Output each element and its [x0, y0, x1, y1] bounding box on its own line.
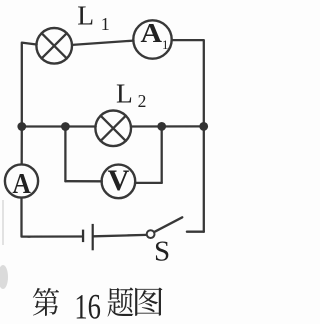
wire: battery positive to switch pivot — [94, 235, 147, 236]
ammeter A1 circle — [133, 20, 171, 58]
junction node: voltmeter branch left — [61, 122, 70, 131]
wire: bottom to battery negative — [28, 235, 82, 237]
scan streak left edge — [2, 200, 4, 245]
svg-text:L: L — [116, 77, 133, 108]
svg-text:1: 1 — [162, 37, 169, 52]
svg-text:A: A — [141, 17, 163, 48]
wire: switch fixed contact to right rail bottom corner — [187, 231, 204, 233]
voltmeter V circle — [102, 165, 136, 199]
wire: A1 to top-right corner + right rail upper — [172, 40, 204, 126]
junction node: right rail / middle row — [199, 122, 208, 131]
svg-text:V: V — [108, 165, 130, 197]
battery negative plate (short) — [82, 230, 84, 243]
svg-text:1: 1 — [101, 14, 110, 34]
wire: right rail lower (junction down to switch corner) — [203, 126, 205, 231]
svg-text:L: L — [77, 0, 94, 31]
wire: voltmeter branch right vertical — [161, 127, 163, 183]
lamp L1 cross — [42, 33, 67, 58]
caption char 'di' (第) — [33, 288, 59, 316]
wire: left rail top + top-left corner to lamp L1 — [22, 43, 37, 127]
junction node: voltmeter branch right — [157, 122, 166, 131]
lamp L2 cross — [101, 116, 126, 141]
junction node: left rail / middle row — [17, 122, 26, 131]
ammeter A circle — [5, 164, 38, 197]
caption char 'ti' (题) — [108, 287, 134, 316]
switch pivot circle — [147, 230, 155, 238]
wire: voltmeter branch left vertical — [64, 127, 66, 182]
lamp L2 circle — [95, 111, 131, 147]
svg-text:2: 2 — [138, 91, 147, 111]
wire: voltmeter branch right horizontal — [135, 182, 161, 184]
scan smudge bottom-left — [0, 265, 8, 289]
wire: voltmeter branch left horizontal — [65, 180, 101, 182]
svg-text:16: 16 — [74, 286, 101, 324]
svg-text:S: S — [154, 236, 170, 268]
wire: left rail middle (junction to ammeter A top) — [21, 127, 23, 165]
wire: top between L1 and A1 — [72, 41, 133, 45]
svg-text:A: A — [12, 168, 31, 200]
caption char 'tu' (图) — [135, 288, 162, 316]
lamp L1 circle — [36, 28, 72, 64]
wire: middle row right segment — [131, 125, 204, 127]
wire: left rail below ammeter A to bottom corner — [22, 198, 31, 237]
battery positive plate (long) — [92, 224, 94, 250]
switch blade (open) — [155, 217, 183, 231]
wire: middle row left segment — [22, 125, 96, 127]
